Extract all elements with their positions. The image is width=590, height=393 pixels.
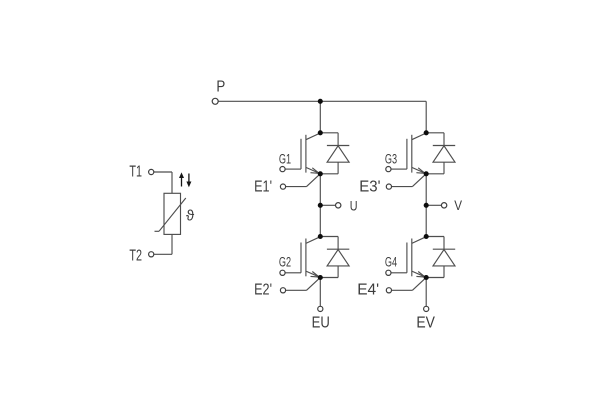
svg-text:E2': E2' <box>254 281 272 298</box>
svg-text:T2: T2 <box>129 247 142 264</box>
svg-text:G3: G3 <box>385 151 397 166</box>
svg-text:G2: G2 <box>279 255 291 270</box>
svg-text:EU: EU <box>312 315 330 332</box>
svg-text:ϑ: ϑ <box>186 207 195 224</box>
svg-text:EV: EV <box>416 315 435 332</box>
svg-text:E1': E1' <box>254 178 272 195</box>
svg-text:E3': E3' <box>359 178 380 195</box>
svg-text:V: V <box>454 197 462 213</box>
svg-text:G4: G4 <box>385 255 398 270</box>
svg-text:P: P <box>216 79 225 96</box>
svg-text:U: U <box>350 197 358 213</box>
svg-text:E4': E4' <box>357 281 379 298</box>
svg-text:T1: T1 <box>129 164 142 181</box>
svg-text:G1: G1 <box>279 151 291 166</box>
